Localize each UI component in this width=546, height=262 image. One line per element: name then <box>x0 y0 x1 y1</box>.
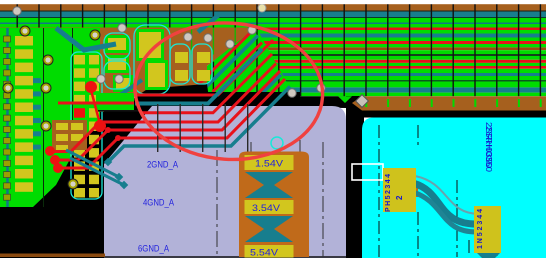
svg-text:5.54V: 5.54V <box>250 248 279 259</box>
svg-text:1.54V: 1.54V <box>255 159 284 170</box>
svg-text:4GND_A: 4GND_A <box>143 198 175 209</box>
svg-text:1N52344: 1N52344 <box>477 209 484 249</box>
svg-text:PH52344: PH52344 <box>385 174 392 212</box>
svg-text:6GND_A: 6GND_A <box>138 244 170 255</box>
svg-text:2SRH0350: 2SRH0350 <box>484 126 494 172</box>
svg-text:3.54V: 3.54V <box>252 203 281 214</box>
svg-text:2: 2 <box>395 195 404 200</box>
svg-text:2GND_A: 2GND_A <box>147 160 179 171</box>
